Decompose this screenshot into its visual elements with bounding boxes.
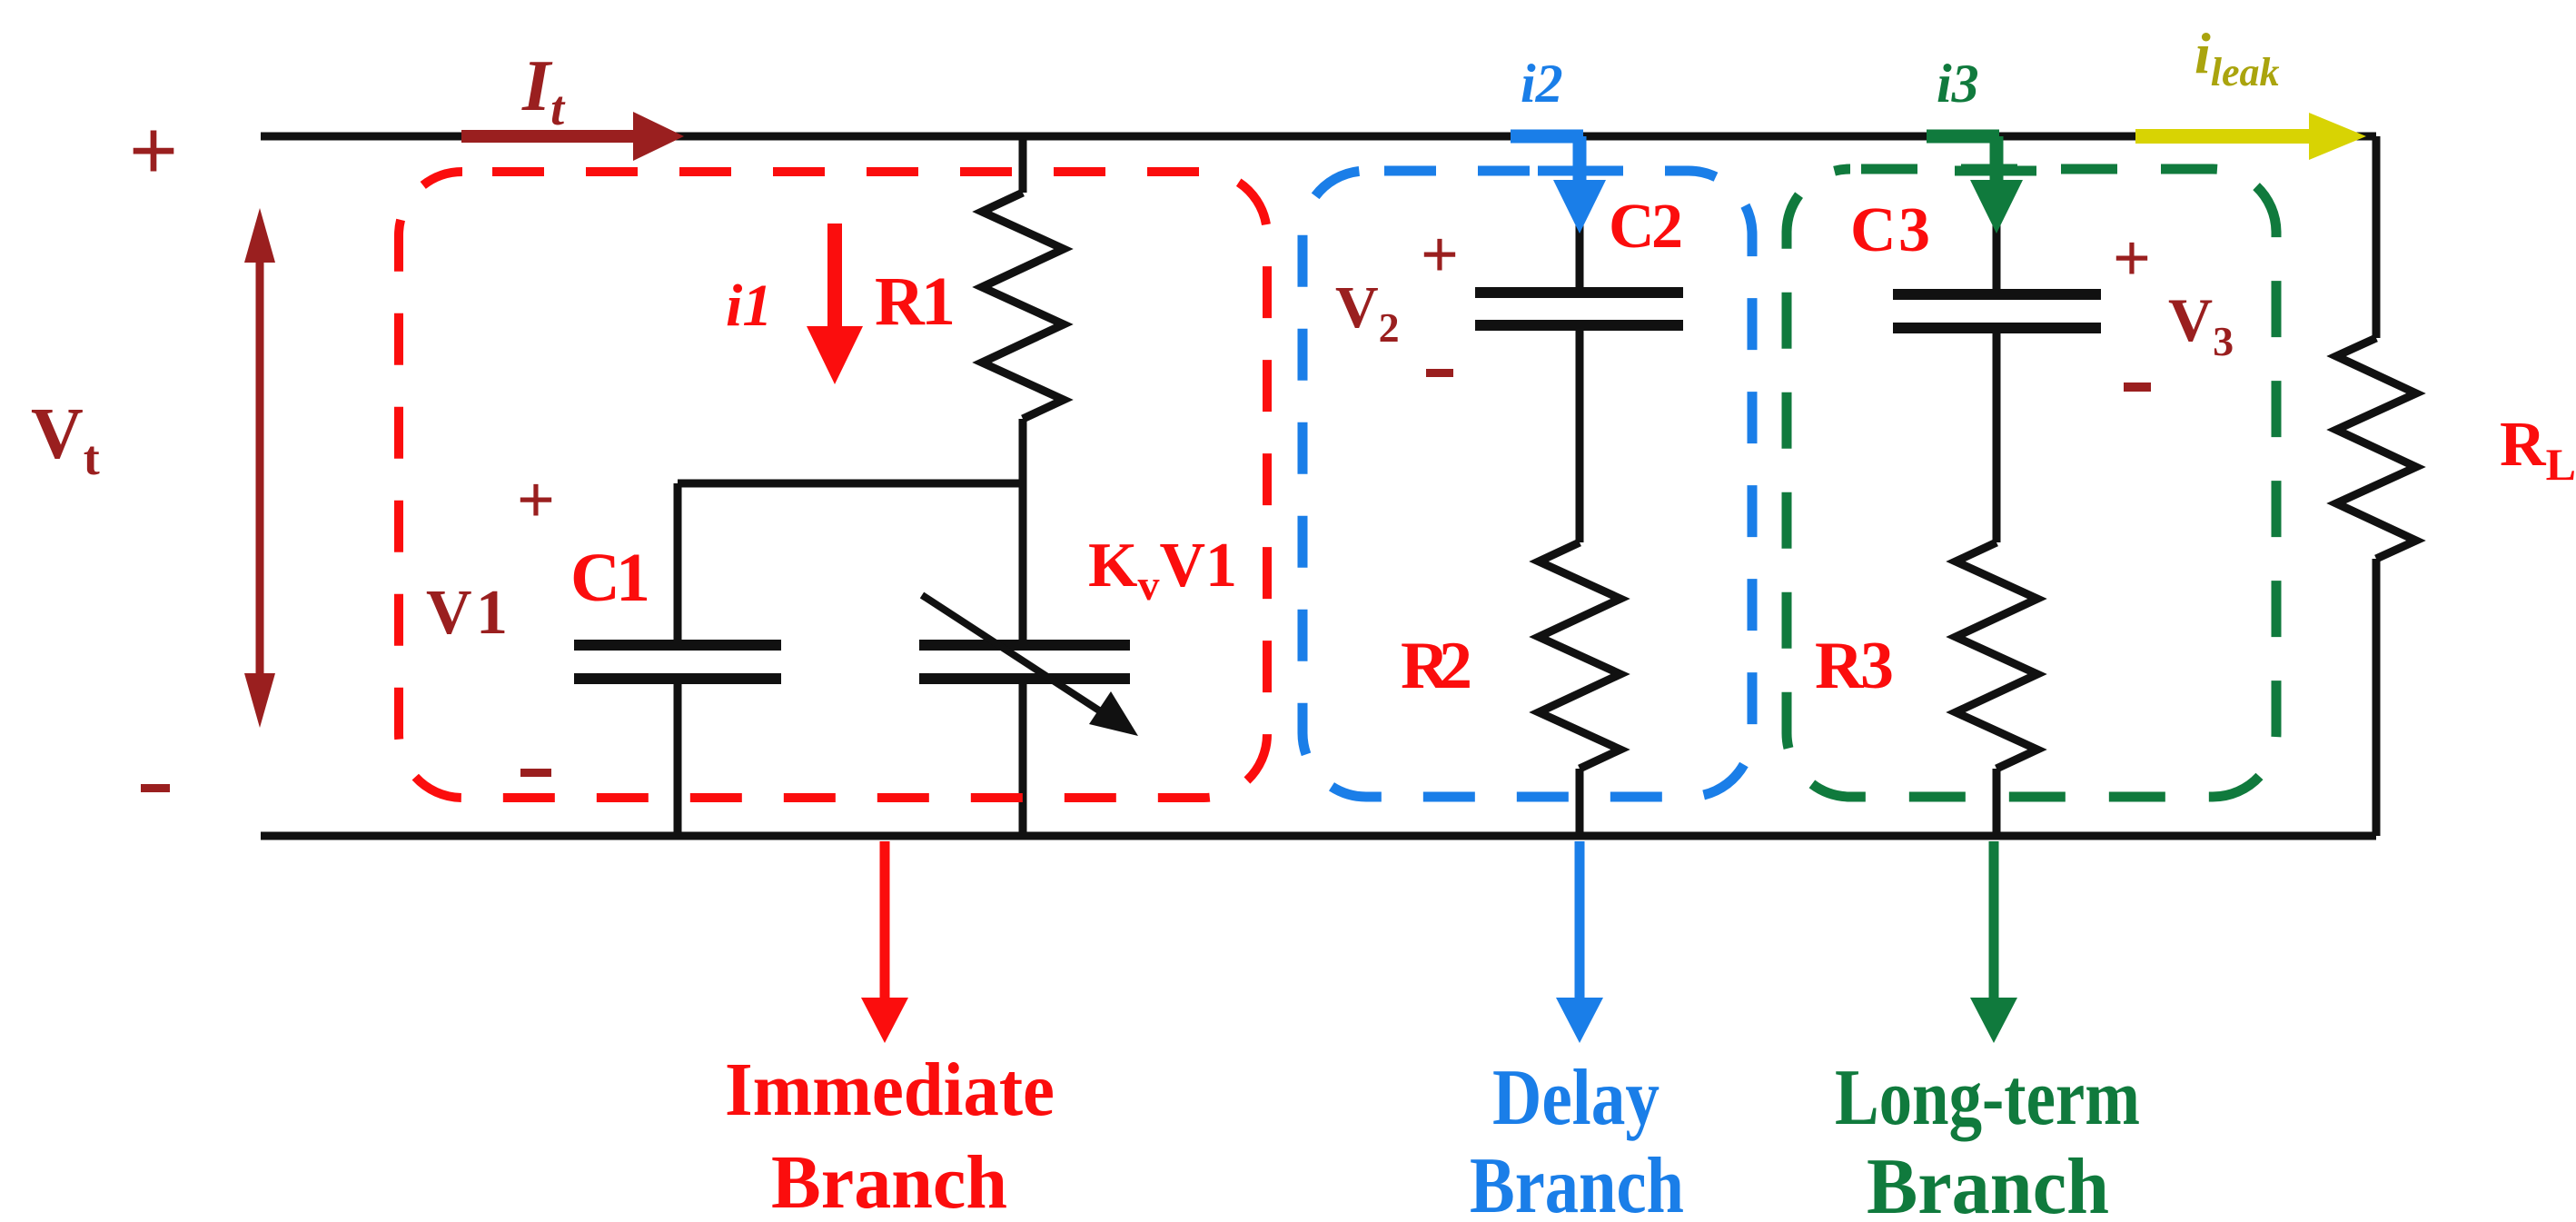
svg-text:i2: i2 xyxy=(1521,54,1563,114)
svg-text:R3: R3 xyxy=(1815,629,1894,703)
svg-text:V2: V2 xyxy=(1335,274,1400,351)
svg-text:Immediate: Immediate xyxy=(725,1048,1055,1132)
svg-text:R1: R1 xyxy=(875,263,956,340)
svg-text:+: + xyxy=(1421,218,1459,293)
svg-text:Branch: Branch xyxy=(1867,1143,2109,1222)
svg-text:Vt: Vt xyxy=(31,394,100,485)
svg-text:+: + xyxy=(517,463,555,538)
svg-text:C3: C3 xyxy=(1850,195,1930,265)
svg-text:C1: C1 xyxy=(570,540,650,616)
svg-text:KvV1: KvV1 xyxy=(1088,531,1237,610)
svg-text:Branch: Branch xyxy=(771,1140,1007,1222)
svg-text:C2: C2 xyxy=(1609,192,1683,262)
svg-text:V1: V1 xyxy=(426,578,508,648)
svg-text:i1: i1 xyxy=(726,273,772,339)
svg-text:RL: RL xyxy=(2500,410,2576,490)
svg-text:+: + xyxy=(129,102,179,199)
svg-text:V3: V3 xyxy=(2168,285,2234,364)
svg-text:It: It xyxy=(521,46,566,135)
svg-text:Branch: Branch xyxy=(1470,1142,1684,1222)
svg-text:Delay: Delay xyxy=(1492,1054,1660,1142)
svg-text:R2: R2 xyxy=(1401,629,1472,703)
svg-text:Long-term: Long-term xyxy=(1835,1054,2140,1142)
svg-text:+: + xyxy=(2113,222,2151,296)
svg-text:i3: i3 xyxy=(1937,54,1979,114)
svg-text:ileak: ileak xyxy=(2195,21,2280,94)
